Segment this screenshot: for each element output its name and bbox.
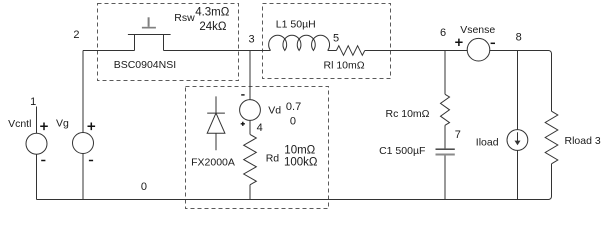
svg-text:Rd: Rd (266, 153, 280, 165)
wire node2 to switch (83, 50, 135, 52)
wire Rl to node6 to Vsense (365, 50, 468, 52)
minus sign Vcntl (41, 160, 45, 162)
Iload arrow (517, 132, 519, 141)
svg-text:2: 2 (73, 29, 79, 41)
wire Rload to ground rail (37, 164, 552, 200)
capacitor C1 bottom plate (436, 154, 455, 156)
svg-text:Vd: Vd (268, 104, 281, 116)
svg-text:3: 3 (249, 33, 255, 45)
svg-text:Rsw: Rsw (174, 12, 195, 24)
svg-text:Rc 10mΩ: Rc 10mΩ (386, 108, 430, 120)
wire node3 down to Vd (249, 51, 251, 100)
svg-text:Vsense: Vsense (460, 24, 495, 36)
plus sign Vd (241, 122, 245, 126)
resistor Rd (244, 134, 257, 184)
wire Rc to C1 (444, 125, 446, 148)
svg-text:FX2000A: FX2000A (191, 157, 235, 169)
svg-text:Iload: Iload (476, 136, 499, 148)
dashed box Rsw switch model (98, 4, 239, 81)
wire Vg column lower (82, 154, 84, 200)
svg-text:0: 0 (141, 181, 147, 193)
plus sign Vcntl (40, 123, 48, 131)
svg-text:BSC0904NSI: BSC0904NSI (114, 59, 176, 71)
diode FX2000A bottom lead (215, 133, 217, 150)
wire Vcntl top node1 (36, 107, 38, 134)
svg-text:4: 4 (257, 122, 263, 134)
wire node8 down to Iload (517, 51, 519, 130)
svg-text:C1 500µF: C1 500µF (379, 145, 425, 157)
transistor gate plate (142, 27, 156, 29)
diode FX2000A triangle (207, 113, 225, 133)
wire C1 to rail (444, 156, 446, 200)
wire Vsense to node8 to Rload corner (489, 51, 551, 112)
minus sign Vd (241, 94, 244, 96)
diode FX2000A cathode bar (207, 112, 225, 114)
wire Iload to rail (517, 150, 519, 199)
resistor Rload (545, 111, 558, 164)
source Vsense (467, 38, 490, 61)
svg-text:Rload 3: Rload 3 (565, 135, 601, 147)
svg-text:Vg: Vg (56, 117, 69, 129)
svg-text:10mΩ: 10mΩ (284, 144, 315, 156)
svg-text:Rl 10mΩ: Rl 10mΩ (324, 60, 365, 72)
resistor Rc (441, 94, 450, 125)
capacitor C1 top plate (436, 148, 455, 150)
wire Rd to rail (249, 185, 251, 200)
svg-text:L1 50µH: L1 50µH (276, 18, 316, 30)
plus sign Vg (88, 123, 96, 131)
source Vg (73, 133, 94, 154)
svg-text:100kΩ: 100kΩ (284, 156, 318, 168)
svg-text:7: 7 (455, 129, 461, 141)
minus sign Vsense (491, 42, 495, 44)
wire node5 (328, 50, 337, 52)
svg-text:8: 8 (516, 31, 522, 43)
svg-text:1: 1 (30, 96, 36, 108)
svg-text:4.3mΩ: 4.3mΩ (195, 6, 230, 18)
dashed box L1/Rl inductor model (263, 4, 391, 79)
transistor gate lead (148, 17, 150, 27)
diode FX2000A top lead (215, 96, 217, 113)
transistor switch BSC0904NSI (128, 35, 171, 51)
source Iload (507, 130, 528, 151)
resistor Rl (336, 46, 364, 56)
minus sign Vg (89, 160, 93, 162)
svg-text:5: 5 (333, 33, 339, 45)
plus sign Vsense (455, 39, 462, 46)
source Vd (240, 100, 261, 121)
source Vcntl (26, 133, 47, 154)
wire switch to node3 (164, 50, 271, 52)
Iload arrowhead (515, 141, 521, 146)
dashed box FX2000A diode model (186, 87, 329, 209)
wire Vg top to node2 (82, 51, 84, 133)
svg-text:6: 6 (440, 27, 446, 39)
svg-text:0.7: 0.7 (286, 101, 301, 113)
wire Vd to node4 to Rd (249, 120, 251, 134)
inductor L1 (269, 35, 330, 50)
wire node6 down to Rc (444, 51, 446, 95)
ground rail left end / Vcntl column (36, 154, 38, 199)
svg-text:Vcntl: Vcntl (8, 118, 31, 130)
svg-text:0: 0 (290, 116, 296, 128)
svg-text:24kΩ: 24kΩ (199, 21, 227, 33)
